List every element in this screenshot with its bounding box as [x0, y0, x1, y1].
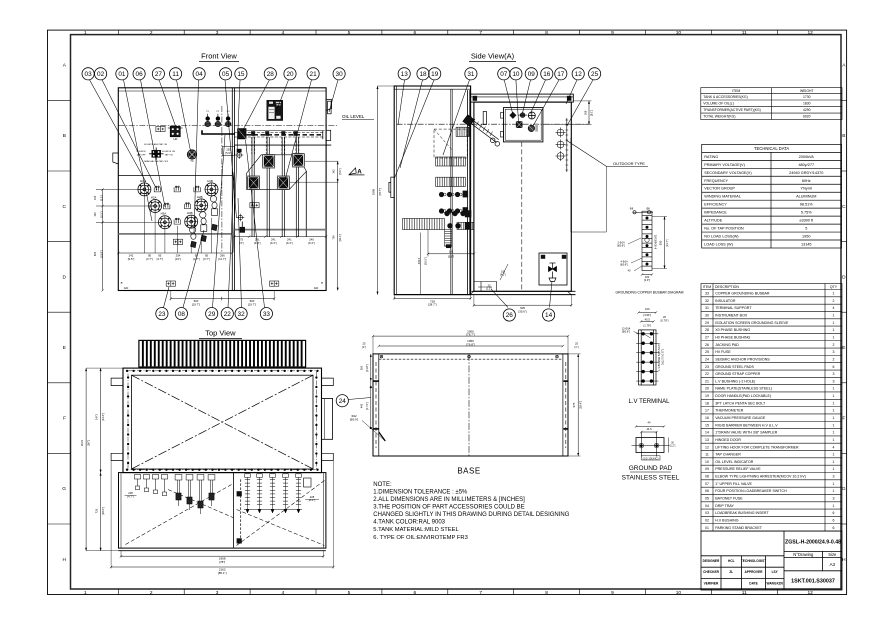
- leader line: [90, 80, 147, 182]
- ground pad top dims: [636, 426, 664, 428]
- svg-text:Size: Size: [828, 552, 837, 557]
- front view horizontal divider left upper: [118, 175, 232, 177]
- svg-text:26: 26: [506, 312, 514, 319]
- svg-text:3: 3: [833, 497, 835, 501]
- weight table: [701, 88, 842, 120]
- busbar drop dashed lines: [251, 137, 253, 154]
- name plate item 20: [267, 100, 283, 120]
- svg-text:11: 11: [172, 71, 179, 78]
- svg-text:YNyn0: YNyn0: [801, 187, 812, 191]
- svg-text:9: 9: [611, 30, 614, 36]
- svg-text:5x[1.79"x0.37"]: 5x[1.79"x0.37"]: [662, 349, 664, 365]
- balloon 30: [333, 68, 345, 80]
- balloon 18: [417, 68, 429, 80]
- svg-text:3PT LATCH PENTA SEC BOLT: 3PT LATCH PENTA SEC BOLT: [715, 401, 766, 405]
- svg-text:480y/277: 480y/277: [798, 163, 814, 167]
- svg-text:4: 4: [833, 445, 835, 449]
- front view lifting lug right: [326, 100, 332, 111]
- leader line: [141, 80, 166, 207]
- svg-text:DOOR HANDLE(PAD LOCKABLE): DOOR HANDLE(PAD LOCKABLE): [715, 394, 771, 398]
- lv terminal top dims: [639, 312, 656, 314]
- svg-text:CHANGED SLIGHTLY IN THIS DRAWI: CHANGED SLIGHTLY IN THIS DRAWING DURING …: [373, 512, 569, 518]
- base outline: [373, 354, 568, 456]
- svg-text:LOADBREAK BUSHING INSERT: LOADBREAK BUSHING INSERT: [715, 511, 769, 515]
- svg-text:100: 100: [645, 307, 650, 311]
- leader line: [213, 135, 226, 308]
- hanging arresters centre group: [175, 475, 182, 507]
- LV terminal cover right protrusion: [322, 399, 333, 440]
- loadbreak switch symbol: [149, 148, 164, 161]
- svg-text:[78"]: [78"]: [219, 560, 225, 564]
- svg-text:ITEM: ITEM: [703, 285, 711, 289]
- svg-text:1471: 1471: [94, 413, 98, 420]
- balloon 33: [260, 308, 272, 320]
- svg-text:[3.94"]: [3.94"]: [643, 313, 651, 317]
- balloon 06: [133, 68, 145, 80]
- svg-text:2031: 2031: [80, 439, 84, 446]
- balloon 21: [307, 68, 319, 80]
- svg-text:INSTRUMENT BOX: INSTRUMENT BOX: [715, 314, 748, 318]
- leader line: [233, 80, 240, 252]
- svg-text:4: 4: [282, 590, 285, 596]
- balloon 13: [398, 68, 410, 80]
- top view left dim 2031 overall: [85, 368, 87, 551]
- svg-text:24940 GRDY/14370: 24940 GRDY/14370: [789, 171, 823, 175]
- svg-text:18: 18: [419, 71, 427, 78]
- svg-text:20: 20: [286, 71, 294, 78]
- svg-text:HINGED DOOR: HINGED DOOR: [715, 438, 741, 442]
- balloon 12: [572, 68, 584, 80]
- svg-text:TOTAL WEIGHT(KG): TOTAL WEIGHT(KG): [703, 115, 735, 119]
- svg-text:[3"]: [3"]: [239, 241, 243, 245]
- leader line: [159, 80, 176, 126]
- base phi22 label: [362, 421, 385, 442]
- busbar top bolts: [633, 211, 653, 213]
- balloon 10: [510, 68, 522, 80]
- tank flange outer rect: [123, 368, 322, 473]
- svg-text:33: 33: [263, 311, 271, 318]
- side view tank outline: [474, 102, 571, 291]
- svg-text:TAP CHANGER: TAP CHANGER: [715, 453, 741, 457]
- leader line: [533, 80, 559, 126]
- svg-text:STAINLESS STEEL: STAINLESS STEEL: [622, 475, 680, 482]
- svg-text:13: 13: [401, 71, 409, 78]
- svg-text:Front View: Front View: [201, 52, 237, 61]
- front view right dim 142 and 790: [305, 160, 338, 162]
- grid column ticks and numbers top: [117, 30, 119, 34]
- leader line: [523, 80, 531, 113]
- leader line: [194, 80, 199, 233]
- svg-text:1: 1: [833, 409, 835, 413]
- leader line: [566, 80, 577, 104]
- svg-text:Top View: Top View: [205, 329, 236, 338]
- svg-text:SOURCE AND TAP ON: SOURCE AND TAP ON: [144, 143, 167, 146]
- balloon 26: [503, 309, 515, 321]
- left compartment lower pads: [173, 239, 182, 244]
- ground strap black item near divider: [240, 227, 245, 233]
- svg-text:01: 01: [118, 71, 126, 78]
- svg-text:E: E: [842, 345, 845, 351]
- svg-text:419.5: 419.5: [417, 257, 421, 264]
- svg-text:PRESSURE RELIEF VALVE: PRESSURE RELIEF VALVE: [715, 467, 761, 471]
- balloon 15: [235, 68, 247, 80]
- svg-text:C: C: [63, 204, 67, 210]
- right compartment dim line: [234, 236, 326, 238]
- svg-text:1: 1: [84, 590, 87, 596]
- svg-text:11: 11: [742, 30, 747, 36]
- HV bushing H3B: [185, 215, 198, 228]
- toothed bar 2: [436, 177, 466, 186]
- svg-text:25: 25: [591, 71, 599, 78]
- svg-text:B: B: [842, 133, 845, 139]
- svg-text:27: 27: [155, 71, 163, 78]
- balloon 32: [235, 308, 247, 320]
- svg-text:5: 5: [805, 227, 807, 231]
- svg-text:07: 07: [705, 482, 709, 486]
- base rail bolts: [380, 355, 383, 358]
- svg-text:5: 5: [348, 590, 351, 596]
- svg-text:98.51%: 98.51%: [800, 203, 814, 207]
- grid row ticks and letters left/right: [48, 99, 71, 101]
- svg-text:H: H: [63, 557, 67, 563]
- dim 150 boxed: [222, 147, 235, 156]
- angled HV bushing side view: [463, 115, 500, 146]
- svg-text:06: 06: [705, 489, 709, 493]
- svg-text:H2B: H2B: [197, 195, 203, 199]
- base right dim 975: [577, 354, 579, 456]
- svg-text:[28.7"]: [28.7"]: [428, 303, 436, 307]
- dashed hood rectangle: [434, 129, 467, 158]
- instrument box hinge tabs: [501, 113, 504, 119]
- svg-text:LIFTING HOOK FOR COMPLETE TRAN: LIFTING HOOK FOR COMPLETE TRANSFORMER: [715, 445, 799, 449]
- fuse support bracket: [202, 130, 235, 134]
- base left dims: [370, 354, 372, 381]
- outdoor type leader and label: [566, 140, 648, 166]
- svg-text:ZL: ZL: [729, 570, 733, 574]
- svg-text:BAYONET FUSE: BAYONET FUSE: [715, 497, 743, 501]
- svg-text:ITEM: ITEM: [732, 89, 740, 93]
- svg-text:11: 11: [742, 590, 747, 596]
- hanging HV bushings top view left group: [134, 475, 140, 490]
- svg-text:TRANSFORMER(ACTIVE PART)(KG): TRANSFORMER(ACTIVE PART)(KG): [703, 108, 761, 112]
- svg-text:C: C: [842, 204, 846, 210]
- svg-text:No. OF TAP POSITION: No. OF TAP POSITION: [704, 227, 744, 231]
- svg-text:QTY: QTY: [830, 285, 838, 289]
- svg-text:1: 1: [833, 453, 835, 457]
- svg-text:02: 02: [97, 71, 105, 78]
- leader line: [228, 172, 234, 308]
- front view right compartment shelf thick: [234, 229, 326, 231]
- leader line: [516, 80, 519, 122]
- svg-text:975: 975: [572, 402, 576, 407]
- svg-text:[80"]: [80"]: [86, 440, 90, 446]
- svg-text:26: 26: [705, 343, 709, 347]
- svg-text:605: 605: [93, 251, 97, 256]
- svg-text:JACKING PAD: JACKING PAD: [715, 343, 739, 347]
- top view left dim 726 compartment: [100, 473, 102, 551]
- instrument box diamond valve: [509, 112, 516, 119]
- leader line: [183, 230, 204, 308]
- leader line: [395, 80, 435, 178]
- svg-text:[9.4"]: [9.4"]: [286, 241, 293, 245]
- svg-text:300: 300: [360, 365, 364, 370]
- leader line: [243, 80, 270, 130]
- ground pad rect: [636, 438, 664, 453]
- svg-text:1: 1: [833, 321, 835, 325]
- svg-text:[31.1"]: [31.1"]: [338, 234, 342, 242]
- front view lifting lug left: [113, 153, 119, 164]
- svg-text:6020: 6020: [803, 115, 811, 119]
- side view bottom dim 905: [474, 304, 571, 306]
- svg-text:44.5: 44.5: [646, 427, 652, 431]
- svg-text:[78.7"]: [78.7"]: [378, 188, 382, 196]
- svg-text:PARKING STAND BRACKET: PARKING STAND BRACKET: [715, 526, 763, 530]
- balloon 24: [336, 395, 348, 407]
- svg-text:3: 3: [833, 350, 835, 354]
- svg-text:5.75%: 5.75%: [801, 211, 812, 215]
- svg-text:[4.1"]: [4.1"]: [500, 274, 506, 277]
- svg-text:D: D: [63, 274, 67, 280]
- svg-text:A3: A3: [829, 562, 835, 567]
- svg-text:10: 10: [512, 71, 520, 78]
- knob row 1: [439, 192, 444, 197]
- svg-text:ALUMINUM: ALUMINUM: [796, 195, 816, 199]
- elbow connector row2 a: [248, 176, 260, 190]
- svg-text:TECHNOLOGIST: TECHNOLOGIST: [741, 559, 766, 563]
- leader line: [276, 80, 289, 112]
- svg-text:[23.8"]: [23.8"]: [99, 250, 103, 258]
- svg-text:15: 15: [237, 71, 245, 78]
- small box right end: [304, 478, 312, 487]
- svg-text:IMPEDANCE: IMPEDANCE: [704, 211, 727, 215]
- side view cabinet outline: [394, 86, 470, 295]
- svg-text:228: 228: [310, 495, 315, 499]
- svg-text:CHECKER: CHECKER: [703, 570, 719, 574]
- side view bottom dim 728: [394, 297, 470, 299]
- jacking tab top-right: [322, 378, 334, 386]
- svg-text:21: 21: [310, 71, 318, 78]
- svg-text:D: D: [842, 274, 846, 280]
- svg-text:2: 2: [833, 343, 835, 347]
- svg-text:H1B: H1B: [207, 179, 213, 183]
- svg-text:PRIMARY VOLTAGE(V): PRIMARY VOLTAGE(V): [704, 163, 745, 167]
- tank centre dash-dot line left compartment: [221, 106, 223, 252]
- elbow connector row1 b: [292, 153, 304, 167]
- drain valve box item 14: [539, 253, 567, 285]
- svg-text:H0 PHASE BUSHING: H0 PHASE BUSHING: [715, 335, 750, 339]
- svg-text:23: 23: [705, 365, 709, 369]
- svg-text:12: 12: [808, 30, 814, 36]
- svg-text:1: 1: [833, 416, 835, 420]
- svg-text:APPROVER: APPROVER: [745, 570, 764, 574]
- X0 bushing item 28 black connector: [238, 129, 247, 140]
- svg-text:OIL LEVEL INDICATOR: OIL LEVEL INDICATOR: [715, 460, 754, 464]
- svg-text:[8.1"]: [8.1"]: [590, 110, 594, 116]
- base centre dash-dot line: [468, 354, 470, 456]
- extension lines below 206 dim: [570, 138, 572, 232]
- svg-text:ISOLATION SCREEN GROUNDING SLE: ISOLATION SCREEN GROUNDING SLEEVE: [715, 321, 789, 325]
- balloon 01: [116, 68, 128, 80]
- svg-text:[3.7"]: [3.7"]: [203, 257, 210, 261]
- svg-text:TAP OFF: TAP OFF: [136, 154, 146, 157]
- connector group hexagon outline: [247, 155, 307, 190]
- svg-text:[5.6"]: [5.6"]: [448, 254, 454, 258]
- svg-text:HV FUSE: HV FUSE: [715, 350, 731, 354]
- svg-text:[9.5"]: [9.5"]: [128, 257, 135, 261]
- balloon 04: [193, 68, 205, 80]
- balloon 14: [543, 309, 555, 321]
- svg-text:COPPER GROUNDING BUSBAR: COPPER GROUNDING BUSBAR: [715, 292, 770, 296]
- upper right stub: [328, 101, 332, 114]
- leader line: [348, 398, 371, 400]
- top view bottom dimension 2162: [111, 566, 333, 568]
- compartment dim label left 228: [125, 495, 137, 497]
- base side dashed lines: [375, 362, 377, 448]
- cabinet internal dim 419.5: [420, 233, 422, 295]
- cabinet divider double line: [467, 90, 469, 295]
- svg-text:[3.7"]: [3.7"]: [146, 257, 153, 261]
- tap selector pads: [156, 126, 165, 131]
- svg-text:F: F: [63, 416, 66, 422]
- leader line: [504, 80, 512, 113]
- svg-text:4290: 4290: [803, 108, 811, 112]
- svg-text:33: 33: [705, 292, 709, 296]
- svg-text:16: 16: [543, 71, 551, 78]
- flange dash-dot centre rect: [128, 371, 316, 470]
- instrument box X square: [516, 121, 523, 128]
- svg-text:08: 08: [705, 475, 709, 479]
- svg-text:550: 550: [659, 240, 663, 245]
- svg-text:7: 7: [479, 30, 482, 36]
- ground pad symbols bottom: [166, 281, 175, 286]
- svg-text:60Hz: 60Hz: [802, 179, 811, 183]
- svg-text:1: 1: [833, 387, 835, 391]
- svg-text:726: 726: [94, 508, 98, 513]
- svg-text:45.5: 45.5: [645, 317, 651, 321]
- svg-text:X0 PHASE BUSHING: X0 PHASE BUSHING: [715, 328, 750, 332]
- jacking tab bottom-left: [111, 453, 123, 460]
- svg-text:ZGSL-H-2000/24.9-0.48: ZGSL-H-2000/24.9-0.48: [785, 540, 841, 546]
- svg-text:Φ22: Φ22: [351, 414, 357, 418]
- svg-text:[16.5"]: [16.5"]: [423, 257, 427, 265]
- svg-text:TANK & ACCESSORIES(KG): TANK & ACCESSORIES(KG): [703, 95, 747, 99]
- balloon 02: [95, 68, 107, 80]
- svg-text:1999: 1999: [371, 188, 375, 195]
- svg-text:4.TANK COLOR:RAL 9003: 4.TANK COLOR:RAL 9003: [373, 520, 445, 526]
- svg-text:[A.1"]: [A.1"]: [309, 498, 316, 502]
- svg-text:≤3300 ft: ≤3300 ft: [799, 219, 814, 223]
- svg-text:1SKT.001.S30037: 1SKT.001.S30037: [791, 579, 835, 585]
- svg-text:135: 135: [93, 195, 97, 200]
- svg-text:H: H: [842, 557, 846, 563]
- balloon 25: [589, 68, 601, 80]
- svg-text:2: 2: [150, 590, 153, 596]
- svg-text:20: 20: [663, 315, 666, 319]
- front view horizontal divider left lower thick: [118, 233, 232, 235]
- compartment dashed riser: [240, 479, 242, 543]
- svg-text:(1/2-13UNC): (1/2-13UNC): [643, 456, 659, 460]
- balloon 07: [498, 68, 510, 80]
- svg-text:[Φ0.6"]: [Φ0.6"]: [622, 330, 630, 334]
- svg-text:WEIGHT: WEIGHT: [800, 89, 814, 93]
- svg-text:H1A: H1A: [140, 179, 146, 183]
- svg-text:[85.1"]: [85.1"]: [218, 571, 227, 575]
- svg-text:BASE: BASE: [457, 467, 480, 476]
- svg-text:09: 09: [705, 467, 709, 471]
- svg-text:[11.8"]: [11.8"]: [365, 364, 369, 371]
- svg-text:22: 22: [705, 372, 709, 376]
- leader line: [329, 80, 338, 112]
- svg-text:ELBOW TYPE LIGHTNING ARRESTER(: ELBOW TYPE LIGHTNING ARRESTER(MCOV 10.2 …: [715, 475, 806, 479]
- svg-text:ALTITUDE: ALTITUDE: [704, 219, 723, 223]
- svg-text:[9.4"]: [9.4"]: [308, 241, 315, 245]
- svg-text:1: 1: [833, 328, 835, 332]
- front view tank outline: [118, 88, 326, 291]
- svg-text:L.V BUSBAR 5x[45.5x9.5]: L.V BUSBAR 5x[45.5x9.5]: [658, 343, 661, 370]
- svg-text:THERMOMETER: THERMOMETER: [715, 409, 744, 413]
- svg-text:2.ALL DIMENSIONS ARE IN MILLIM: 2.ALL DIMENSIONS ARE IN MILLIMETERS & [I…: [373, 497, 525, 503]
- svg-text:SEISMIC ANCHOR PROVISIONS: SEISMIC ANCHOR PROVISIONS: [715, 357, 770, 361]
- title block outline: [701, 531, 842, 590]
- balloon 03: [82, 68, 94, 80]
- balloon 22: [221, 308, 233, 320]
- balloon 19: [429, 68, 441, 80]
- base side bolt marks: [374, 380, 379, 382]
- svg-text:[1.79"]: [1.79"]: [643, 323, 651, 327]
- svg-text:B: B: [63, 133, 66, 139]
- ground pad right dims: [668, 438, 670, 453]
- svg-text:10: 10: [705, 460, 709, 464]
- svg-text:5: 5: [348, 30, 351, 36]
- svg-text:TERMINAL SUPPORT: TERMINAL SUPPORT: [715, 306, 752, 310]
- svg-text:6: 6: [413, 590, 416, 596]
- clamp symbols row2: [164, 203, 170, 209]
- svg-text:29: 29: [208, 311, 216, 318]
- leader line: [285, 80, 312, 180]
- svg-text:11: 11: [705, 453, 709, 457]
- front bottom dimension 500 500: [171, 298, 274, 300]
- right group bottom rail: [244, 508, 302, 510]
- right compartment vertical wires: [251, 137, 253, 237]
- svg-text:04: 04: [705, 504, 709, 508]
- svg-text:32: 32: [705, 299, 709, 303]
- tank right wall ruler: [566, 118, 568, 172]
- svg-text:30: 30: [705, 314, 709, 318]
- svg-text:1: 1: [833, 460, 835, 464]
- svg-text:206: 206: [583, 110, 587, 115]
- svg-text:FOUR POSITION LOADBREAKER SWIT: FOUR POSITION LOADBREAKER SWITCH: [715, 489, 787, 493]
- svg-text:H0: H0: [173, 137, 177, 141]
- svg-text:[19.7"]: [19.7"]: [248, 302, 256, 306]
- svg-text:19: 19: [431, 71, 439, 78]
- svg-text:3: 3: [216, 590, 219, 596]
- svg-text:HCL: HCL: [728, 559, 735, 563]
- leader line: [491, 289, 508, 307]
- lv terminal plate: [639, 330, 656, 385]
- tap changer H0 symbol: [168, 126, 183, 137]
- svg-text:[10"]: [10"]: [175, 257, 181, 261]
- svg-text:13: 13: [705, 438, 709, 442]
- knob row 2: [439, 208, 444, 213]
- side view right lid dimension 206: [588, 101, 590, 125]
- svg-text:7: 7: [479, 590, 482, 596]
- svg-text:28: 28: [267, 71, 275, 78]
- svg-text:25: 25: [705, 350, 709, 354]
- svg-text:9: 9: [611, 590, 614, 596]
- svg-text:3.THE POSITION OF PART ACCESSO: 3.THE POSITION OF PART ACCESSORIES COULD…: [373, 505, 524, 511]
- svg-text:GROUND PAD: GROUND PAD: [629, 465, 673, 472]
- balloon 16: [541, 68, 553, 80]
